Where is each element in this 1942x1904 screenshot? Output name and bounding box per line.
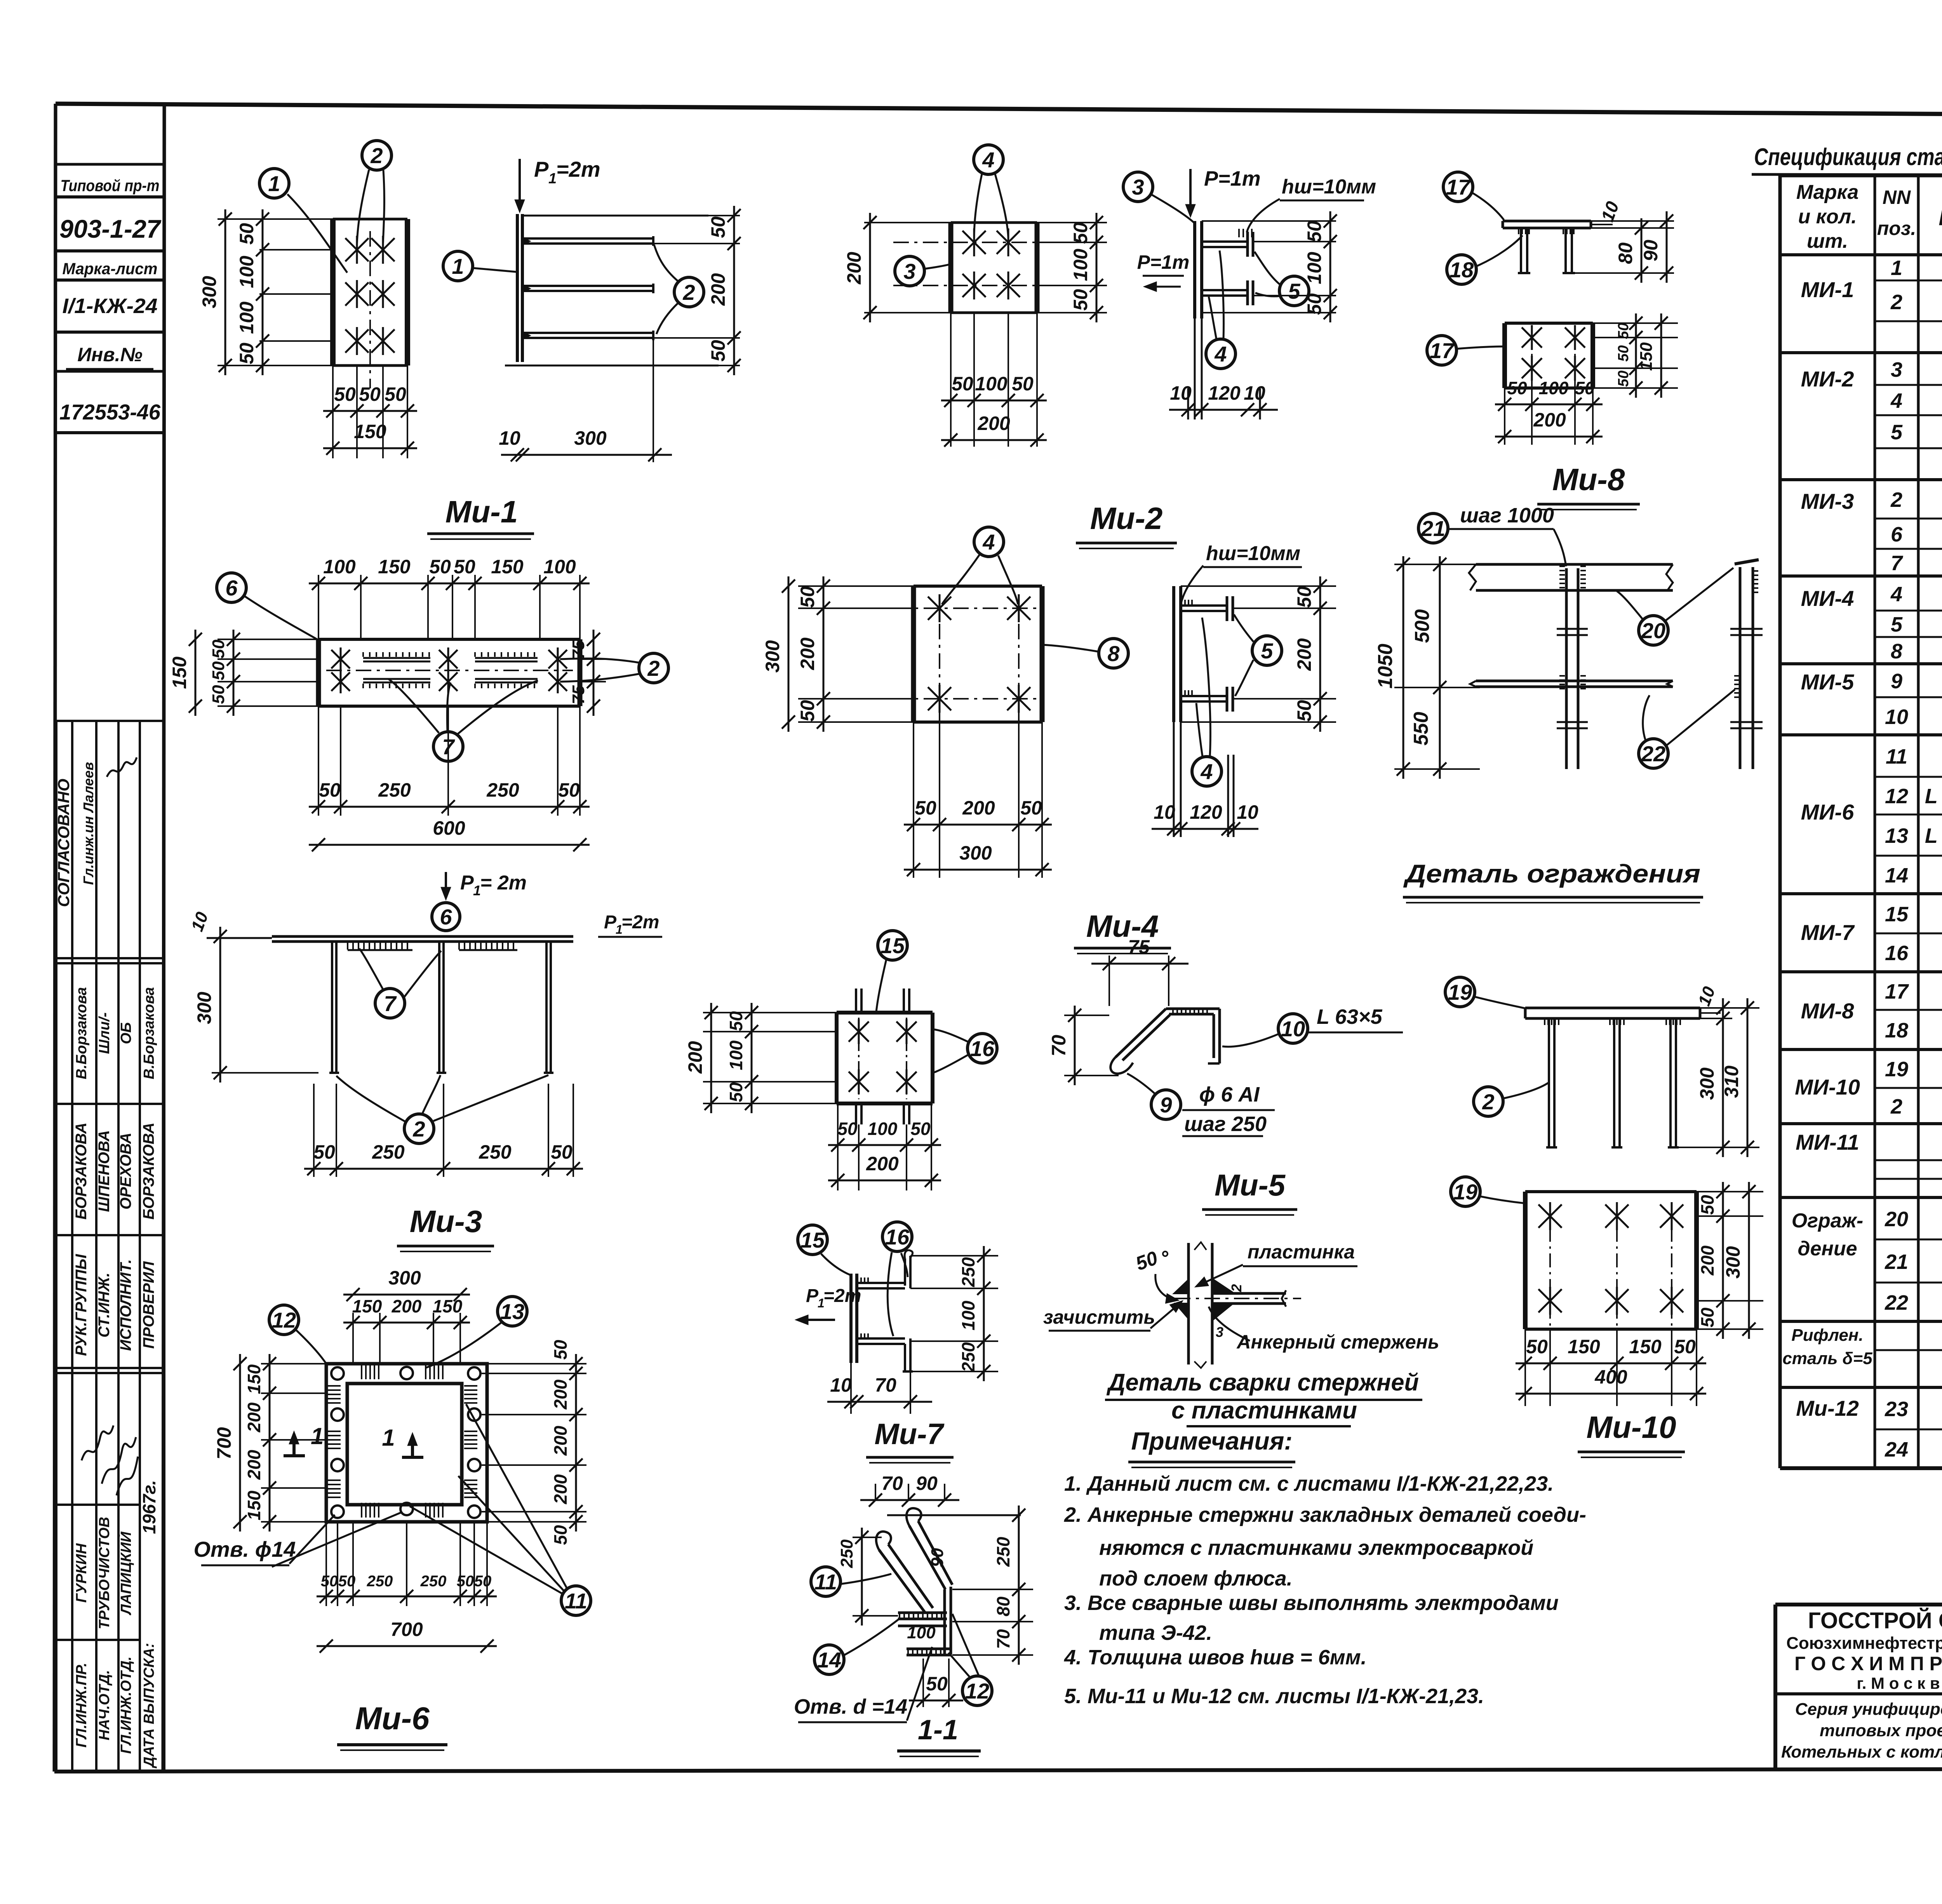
svg-text:Отв. ϕ14: Отв. ϕ14: [194, 1537, 296, 1561]
fence top rail angle 63x5: [1476, 563, 1673, 566]
svg-text:5. Ми-11 и Ми-12 см. листы I: 5. Ми-11 и Ми-12 см. листы I/1-КЖ-21,23.: [1064, 1685, 1484, 1708]
svg-text:50: 50: [1697, 1195, 1718, 1215]
svg-text:150: 150: [491, 556, 524, 578]
svg-text:4: 4: [1890, 583, 1902, 606]
fence post break marks: [1557, 628, 1588, 630]
svg-text:120: 120: [1208, 382, 1241, 404]
Ми-5 balloon 9 with label φ6АI шаг 250: [1151, 1090, 1181, 1119]
svg-text:ГЛ.ИНЖ.ПР.: ГЛ.ИНЖ.ПР.: [73, 1663, 90, 1748]
svg-text:hш=10мм: hш=10мм: [1282, 176, 1376, 198]
svg-text:120: 120: [1190, 801, 1222, 823]
svg-text:70: 70: [875, 1374, 896, 1396]
svg-text:50: 50: [1674, 1336, 1696, 1358]
Ми-4 anchor marks: [928, 597, 951, 620]
svg-text:75: 75: [1128, 936, 1150, 958]
Ми-4 side right dimensions 50/200/50: [1181, 585, 1336, 587]
svg-text:L 160×100×10: L 160×100×10: [1925, 824, 1942, 848]
Ми-6 inner opening: [347, 1384, 462, 1505]
Ми-4 balloon 8: [1099, 639, 1128, 668]
svg-text:2: 2: [1890, 1095, 1902, 1118]
Ми-1 side right dimension 50/200/50: [708, 215, 740, 216]
svg-text:12: 12: [965, 1679, 989, 1703]
svg-text:шт.: шт.: [1807, 230, 1848, 252]
svg-text:50: 50: [209, 685, 228, 704]
left stamp middle table (Согласовано) grid: [55, 721, 57, 1373]
svg-text:4: 4: [1890, 389, 1902, 412]
1-1 vertical angle leg: [943, 1589, 946, 1655]
weld detail chamfer arc arrow: [1155, 1274, 1177, 1300]
svg-text:ЛАПИЦКИЙ: ЛАПИЦКИЙ: [117, 1532, 134, 1616]
svg-text:Ми-10: Ми-10: [1586, 1410, 1676, 1445]
svg-text:150: 150: [1629, 1336, 1662, 1358]
Ми-7 side view plate: [849, 1274, 853, 1363]
svg-text:50: 50: [457, 1573, 474, 1590]
svg-text:70: 70: [993, 1629, 1013, 1649]
Ми-6 weld hatch bundles on bands: [327, 1385, 341, 1387]
svg-text:типовых проектов: типовых проектов: [1820, 1721, 1942, 1740]
svg-text:16: 16: [970, 1036, 995, 1061]
svg-text:80: 80: [993, 1596, 1013, 1617]
specification table grid: [1778, 176, 1782, 1468]
svg-text:ϕ 6 АI: ϕ 6 АI: [1199, 1083, 1260, 1106]
svg-text:Котельных с котлами ДКВР: Котельных с котлами ДКВР: [1781, 1742, 1942, 1761]
svg-text:6: 6: [1891, 523, 1903, 546]
svg-text:8: 8: [1891, 640, 1902, 663]
svg-text:19: 19: [1453, 1180, 1477, 1204]
svg-text:50: 50: [726, 1082, 746, 1102]
svg-text:19: 19: [1448, 980, 1472, 1004]
svg-text:250: 250: [486, 779, 519, 801]
svg-text:Гл.инж.ин Лалеев: Гл.инж.ин Лалеев: [80, 762, 96, 885]
svg-text:9: 9: [1160, 1093, 1172, 1117]
svg-text:50: 50: [1697, 1307, 1718, 1328]
Ми-7 bottom dimension 10/70: [850, 1363, 852, 1414]
svg-text:150: 150: [1568, 1336, 1600, 1358]
svg-text:100: 100: [975, 373, 1008, 395]
Ми-10 balloon 19 top: [1445, 977, 1475, 1007]
Ми-7 bent rod stubs: [855, 989, 857, 1013]
svg-text:250: 250: [479, 1141, 512, 1163]
Ми-10 balloon 19 plan: [1451, 1177, 1480, 1206]
Ми-1 anchor marks: [345, 238, 369, 261]
svg-text:10: 10: [499, 427, 520, 449]
1-1 bottom angle piece: [907, 1648, 951, 1650]
svg-text:15: 15: [800, 1228, 825, 1252]
svg-text:2: 2: [1890, 488, 1902, 512]
svg-text:4: 4: [1214, 342, 1227, 366]
1-1 left dimension 250: [853, 1537, 882, 1538]
Ми-4 balloon 4: [974, 527, 1004, 557]
svg-text:с пластинками: с пластинками: [1171, 1397, 1357, 1424]
svg-text:ГОССТРОЙ СССР: ГОССТРОЙ СССР: [1808, 1608, 1942, 1633]
Ми-7 balloon 15: [878, 931, 907, 960]
svg-text:СОГЛАСОВАНО: СОГЛАСОВАНО: [54, 779, 73, 907]
svg-text:Серия унифицированных: Серия унифицированных: [1795, 1700, 1942, 1719]
svg-text:ОБ: ОБ: [118, 1022, 134, 1044]
svg-text:Ми-5: Ми-5: [1215, 1168, 1286, 1202]
svg-text:100: 100: [236, 256, 258, 288]
svg-text:21: 21: [1421, 516, 1445, 541]
Ми-1 left dimension line 50/100/100/50: [262, 209, 264, 375]
Ми-4 side balloon 5: [1252, 636, 1282, 665]
Ми-8 top view plate: [1503, 220, 1591, 223]
Ми-3 side bottom dimensions 50/250/250/50: [313, 1084, 315, 1177]
svg-text:14: 14: [817, 1648, 841, 1672]
Ми-6 balloon 12: [269, 1305, 299, 1335]
Ми-1 side bottom dimension 10/300: [653, 338, 654, 462]
fence detail dimensions 500 and 550: [1439, 556, 1441, 779]
svg-text:310: 310: [1721, 1065, 1742, 1098]
svg-text:1: 1: [548, 171, 557, 187]
svg-text:50: 50: [236, 223, 258, 245]
svg-text:МИ-7: МИ-7: [1801, 920, 1855, 945]
svg-text:5: 5: [1288, 279, 1300, 303]
svg-text:50: 50: [209, 661, 228, 680]
Ми-3 top dimension 100/150/50/50/150/100: [318, 575, 319, 639]
svg-text:P: P: [460, 872, 474, 894]
svg-text:50: 50: [1012, 373, 1034, 395]
svg-text:150: 150: [378, 556, 411, 578]
svg-text:2: 2: [1482, 1089, 1494, 1114]
Ми-2 left overall dimension 200: [864, 222, 951, 223]
Ми-2 plan view plate 200x200: [948, 223, 954, 313]
svg-text:150: 150: [433, 1296, 463, 1316]
Ми-2 side view plate edge: [1193, 221, 1196, 318]
Ми-10 plan view plate 300x400: [1523, 1192, 1528, 1329]
svg-text:50: 50: [551, 1141, 573, 1163]
svg-text:1967г.: 1967г.: [139, 1480, 159, 1534]
svg-text:90: 90: [916, 1472, 938, 1494]
1-1 bottom dimension 50: [922, 1659, 924, 1707]
Ми-6 outer plate ring: [326, 1364, 487, 1522]
svg-text:СТ.ИНЖ.: СТ.ИНЖ.: [96, 1272, 113, 1337]
svg-text:250: 250: [993, 1537, 1013, 1567]
Ми-7 plan view plate 200x200: [835, 1013, 839, 1103]
svg-text:Ми-7: Ми-7: [874, 1418, 945, 1451]
Ми-6 balloon 11 with leaders: [561, 1586, 591, 1615]
svg-text:3: 3: [1891, 358, 1902, 381]
Ми-5 weld hatch on angle shelf: [1172, 1009, 1174, 1014]
1-1 top dimensions 70/90: [875, 1484, 876, 1499]
svg-text:10: 10: [1237, 801, 1258, 823]
svg-text:ДАТА ВЫПУСКА:: ДАТА ВЫПУСКА:: [141, 1643, 157, 1768]
svg-text:1: 1: [311, 1423, 324, 1449]
Ми-1 plan view plate 150x300: [330, 219, 336, 365]
Ми-2 side anchor rods with end plates: [1202, 240, 1248, 243]
svg-text:22: 22: [1641, 741, 1665, 766]
svg-text:90: 90: [1640, 240, 1662, 261]
svg-text:50: 50: [1303, 221, 1325, 242]
Ми-4 bottom dimensions 50/200/50 and 300: [913, 722, 914, 878]
svg-text:8: 8: [1107, 641, 1120, 666]
signature squiggle in Согласовано block: [107, 757, 137, 777]
svg-text:P: P: [534, 157, 549, 181]
svg-text:Типовой пр-т: Типовой пр-т: [61, 176, 160, 195]
Ми-7 right dimensions 250/100/250: [910, 1255, 998, 1257]
svg-text:МИ-8: МИ-8: [1801, 999, 1855, 1023]
svg-text:200: 200: [550, 1425, 571, 1456]
svg-text:БОРЗАКОВА: БОРЗАКОВА: [140, 1123, 157, 1220]
Ми-1 bottom dimension 50/50/50: [332, 365, 334, 458]
svg-text:50: 50: [319, 779, 341, 801]
svg-text:24: 24: [1885, 1438, 1908, 1461]
svg-text:14: 14: [1885, 864, 1908, 887]
svg-text:50: 50: [797, 700, 818, 722]
svg-text:Рифлен.: Рифлен.: [1791, 1326, 1863, 1345]
svg-text:Шли/-: Шли/-: [96, 1012, 113, 1054]
svg-text:БОРЗАКОВА: БОРЗАКОВА: [73, 1123, 90, 1220]
svg-text:9: 9: [1891, 670, 1902, 693]
svg-text:50: 50: [385, 383, 406, 405]
sheet left border: [54, 104, 56, 1772]
svg-text:200: 200: [1697, 1245, 1718, 1276]
svg-text:250: 250: [958, 1342, 978, 1372]
svg-text:16: 16: [1885, 942, 1909, 965]
Ми-2 side right dimension 50/100/50: [1202, 220, 1336, 222]
svg-text:50: 50: [474, 1573, 492, 1590]
svg-text:типа Э-42.: типа Э-42.: [1099, 1621, 1212, 1645]
svg-text:6: 6: [225, 576, 238, 600]
svg-text:100: 100: [1303, 252, 1325, 284]
svg-text:150: 150: [1637, 342, 1656, 371]
svg-text:70: 70: [1048, 1035, 1070, 1056]
svg-text:700: 700: [390, 1619, 423, 1640]
svg-text:19: 19: [1885, 1058, 1908, 1081]
Ми-8 balloon 17 bottom: [1427, 336, 1456, 365]
Ми-5 dimension 75: [1108, 955, 1110, 1006]
title block outer box: [1775, 1603, 1942, 1606]
1-1 balloon 11: [811, 1567, 840, 1596]
Ми-8 balloon 18: [1447, 255, 1476, 284]
svg-text:50: 50: [910, 1119, 931, 1139]
svg-text:300: 300: [959, 842, 992, 864]
svg-text:903-1-27: 903-1-27: [59, 214, 162, 243]
left stamp upper box lines: [56, 163, 164, 166]
Ми-3 load arrow P1=2т with label: [445, 872, 447, 897]
svg-text:75: 75: [569, 685, 588, 704]
svg-text:50: 50: [1575, 378, 1595, 398]
Ми-3 slot welds with hatch: [363, 657, 430, 659]
svg-text:P=1т: P=1т: [1137, 251, 1190, 273]
svg-text:50: 50: [915, 797, 936, 819]
svg-text:шаг 1000: шаг 1000: [1460, 504, 1554, 527]
svg-text:300: 300: [1722, 1246, 1744, 1279]
svg-text:2: 2: [647, 656, 660, 680]
Ми-2 side balloon 3: [1123, 172, 1153, 202]
svg-text:Анкерный стержень: Анкерный стержень: [1236, 1331, 1439, 1353]
svg-text:1050: 1050: [1374, 644, 1397, 689]
svg-text:Ми-1: Ми-1: [445, 494, 518, 529]
svg-text:МИ-6: МИ-6: [1801, 800, 1855, 824]
1-1 right dimensions 250/80/70: [952, 1589, 1033, 1590]
svg-text:ГЛ.ИНЖ.ОТД.: ГЛ.ИНЖ.ОТД.: [118, 1657, 134, 1754]
svg-text:50: 50: [707, 340, 729, 362]
Ми-2 balloon 4: [974, 145, 1003, 174]
svg-text:100: 100: [236, 301, 258, 334]
Ми-6 bottom dimensions 50/50/250/250/50/50 and 700: [325, 1522, 327, 1606]
svg-text:17: 17: [1885, 980, 1909, 1003]
svg-text:20: 20: [1885, 1208, 1908, 1231]
svg-text:МИ-4: МИ-4: [1801, 586, 1854, 611]
svg-text:Деталь сварки стержней: Деталь сварки стержней: [1106, 1369, 1419, 1396]
svg-text:15: 15: [881, 933, 905, 958]
fence right channel post section: [1739, 567, 1742, 769]
svg-text:200: 200: [1533, 409, 1566, 431]
svg-text:4: 4: [982, 148, 994, 172]
Ми-6 top dimensions 150/200/150 and 300: [352, 1313, 354, 1364]
Ми-5 dimension 70: [1074, 1006, 1076, 1085]
svg-text:50: 50: [1507, 378, 1527, 398]
svg-text:18: 18: [1450, 258, 1474, 282]
signature squiggles lower stamp: [82, 1425, 113, 1460]
svg-text:Ми-8: Ми-8: [1552, 462, 1625, 497]
svg-text:600: 600: [433, 817, 465, 839]
title block horizontal split in org box: [1775, 1692, 1942, 1695]
svg-text:200: 200: [244, 1402, 264, 1432]
Ми-3 side view top flange: [272, 935, 573, 938]
Ми-7 side bent rod lower: [857, 1337, 905, 1340]
svg-text:12: 12: [272, 1308, 296, 1332]
svg-text:50: 50: [313, 1141, 335, 1163]
svg-text:Ми-12: Ми-12: [1796, 1396, 1859, 1420]
svg-text:200: 200: [550, 1474, 571, 1504]
svg-text:1: 1: [452, 254, 464, 278]
svg-text:Отв. d =14: Отв. d =14: [794, 1695, 907, 1718]
svg-text:шаг 250: шаг 250: [1184, 1112, 1267, 1136]
Ми-8 bottom dimensions 50/100/50 and 200: [1504, 388, 1505, 445]
svg-text:50: 50: [1615, 345, 1632, 362]
svg-text:100: 100: [1070, 249, 1091, 281]
Ми-6 left dimensions 150/200/200/150 and 700: [261, 1363, 326, 1364]
Ми-6 right dimensions 50/200/200/200/50: [482, 1373, 586, 1374]
Ми-7 side bent rod upper: [857, 1282, 905, 1284]
Ми-7 left dimensions 50/100/50 and 200: [703, 1012, 837, 1013]
svg-text:L 63×5: L 63×5: [1317, 1005, 1383, 1029]
Ми-7 side balloon 16: [882, 1222, 912, 1251]
svg-text:250: 250: [958, 1257, 978, 1287]
svg-text:дение: дение: [1798, 1237, 1857, 1260]
svg-text:ГУРКИН: ГУРКИН: [73, 1543, 90, 1603]
Ми-1 bottom overall dimension 150: [323, 447, 417, 449]
svg-text:2: 2: [682, 280, 695, 305]
svg-text:50: 50: [550, 1525, 571, 1545]
fence balloon 20: [1639, 616, 1668, 645]
svg-text:11: 11: [565, 1589, 587, 1613]
svg-text:hш=10мм: hш=10мм: [1206, 542, 1300, 565]
svg-text:ШПЕНОВА: ШПЕНОВА: [96, 1130, 113, 1212]
svg-text:50: 50: [1526, 1336, 1548, 1358]
svg-text:50: 50: [1020, 797, 1042, 819]
svg-text:50: 50: [558, 779, 580, 801]
Ми-8 top view legs: [1520, 228, 1522, 273]
svg-text:100: 100: [543, 556, 576, 578]
Ми-1 side balloon 2: [674, 277, 704, 307]
svg-text:2: 2: [1229, 1284, 1244, 1292]
1-1 balloon 12: [962, 1676, 992, 1706]
fence balloon 21 with шаг 1000 label: [1418, 513, 1448, 543]
fence weld hatch at top rail/post joint: [1559, 566, 1565, 567]
svg-text:100: 100: [868, 1119, 898, 1139]
svg-text:P: P: [604, 912, 617, 933]
svg-text:400: 400: [1594, 1366, 1627, 1388]
svg-text:250: 250: [837, 1539, 856, 1568]
svg-text:100: 100: [323, 556, 356, 578]
svg-text:NN: NN: [1883, 186, 1911, 208]
svg-text:50: 50: [726, 1011, 746, 1031]
Ми-3 left dimensions 50/50/50 and 150: [218, 639, 318, 640]
svg-text:250: 250: [367, 1573, 393, 1590]
svg-text:23: 23: [1885, 1398, 1908, 1421]
svg-text:550: 550: [1410, 712, 1432, 746]
Ми-10 side view top plate: [1525, 1007, 1700, 1009]
svg-text:=2т: =2т: [823, 1286, 861, 1306]
svg-text:300: 300: [193, 992, 215, 1024]
svg-text:300: 300: [388, 1267, 421, 1289]
svg-text:200: 200: [550, 1379, 571, 1410]
svg-text:сталь δ=5: сталь δ=5: [1782, 1349, 1872, 1368]
svg-text:зачистить: зачистить: [1043, 1306, 1155, 1328]
Ми-2 right dimension 50/100/50: [1037, 222, 1107, 223]
svg-text:МИ-1: МИ-1: [1801, 277, 1854, 302]
svg-text:P: P: [806, 1286, 819, 1306]
svg-text:L 160×100×10: L 160×100×10: [1925, 785, 1942, 808]
svg-text:300: 300: [574, 427, 607, 449]
Ми-10 plan bottom dimensions 50/150/150/50 and 400: [1524, 1329, 1526, 1406]
Ми-3 right dimensions 75/75: [580, 658, 606, 660]
svg-text:250: 250: [372, 1141, 405, 1163]
svg-text:ПРОВЕРИЛ: ПРОВЕРИЛ: [140, 1261, 157, 1349]
svg-text:Примечания:: Примечания:: [1131, 1427, 1292, 1455]
svg-text:P=1т: P=1т: [1204, 167, 1261, 190]
svg-text:50: 50: [209, 639, 228, 658]
svg-text:50: 50: [1070, 289, 1091, 311]
svg-text:10: 10: [1170, 382, 1192, 404]
Ми-1 position balloon 2: [362, 141, 392, 170]
svg-text:300: 300: [1696, 1067, 1718, 1100]
svg-text:50: 50: [1070, 222, 1091, 244]
Ми-2 anchor marks: [962, 231, 986, 254]
svg-text:13: 13: [500, 1299, 524, 1324]
svg-text:Профиль: Профиль: [1939, 204, 1942, 230]
svg-text:3. Все сварные швы выполнять э: 3. Все сварные швы выполнять электродами: [1064, 1591, 1559, 1615]
svg-text:700: 700: [213, 1427, 235, 1460]
svg-text:300: 300: [198, 276, 220, 308]
svg-text:50: 50: [334, 383, 356, 405]
Ми-2 balloon 3: [895, 256, 924, 286]
svg-text:150: 150: [244, 1364, 264, 1394]
Ми-1 side view plate: [516, 214, 519, 362]
svg-text:100: 100: [726, 1040, 746, 1070]
sheet outer frame top border: [56, 104, 1942, 117]
svg-text:50: 50: [952, 373, 973, 395]
svg-text:200: 200: [962, 797, 995, 819]
svg-text:= 2т: = 2т: [480, 872, 527, 894]
svg-text:Инв.№: Инв.№: [77, 344, 143, 365]
Ми-4 side balloon 4: [1192, 757, 1222, 786]
Ми-3 bottom dimensions 50/250/250/50 and 600: [318, 706, 319, 816]
svg-text:5: 5: [1891, 613, 1903, 636]
Ми-6 balloon 13: [498, 1297, 527, 1326]
svg-text:200: 200: [843, 252, 865, 285]
svg-text:50: 50: [1615, 323, 1632, 339]
svg-text:50: 50: [1293, 700, 1315, 722]
Ми-2 vertical load arrow P=1т: [1189, 169, 1192, 214]
fence balloon 22: [1639, 739, 1668, 768]
Ми-2 side bottom dimension 10/120/10: [1187, 388, 1189, 419]
Ми-2 side balloon 5: [1279, 276, 1309, 306]
Ми-3 balloon 2: [639, 653, 668, 683]
Ми-8 bottom right dimensions 50/50/50 and 150: [1593, 322, 1678, 324]
